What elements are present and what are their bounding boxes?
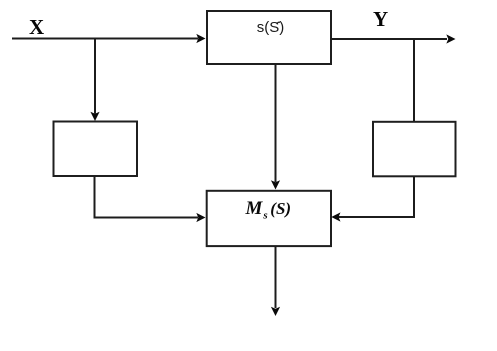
block M_s(S) xyxy=(207,191,331,246)
wire: output Y horizontal line xyxy=(331,38,448,40)
wire: output from M block bottom xyxy=(275,247,277,309)
wire: from right block bottom, down then left to M block xyxy=(338,177,414,218)
arrowhead of bottom output xyxy=(271,307,280,316)
node Y label xyxy=(373,7,388,31)
arrowhead into M_s(S) block top xyxy=(271,180,280,189)
arrowhead into M block right side xyxy=(331,212,340,221)
right block (empty) xyxy=(373,122,456,177)
arrowhead of Y output xyxy=(446,34,455,43)
wire: center vertical from s(S) block down xyxy=(275,64,277,182)
arrowhead into left block xyxy=(90,112,99,121)
wire: input X horizontal line xyxy=(12,38,198,40)
svg-text:Y: Y xyxy=(373,7,388,31)
block s(S) xyxy=(207,11,331,64)
svg-text:X: X xyxy=(29,15,44,39)
wire: left vertical branch from X line xyxy=(94,39,96,114)
wire: from left block bottom, down then right to M block xyxy=(95,177,199,218)
left block (empty) xyxy=(54,122,138,177)
svg-text:s(S): s(S) xyxy=(257,19,285,36)
wire: right vertical branch from Y line xyxy=(413,39,415,122)
arrowhead into M block left side xyxy=(196,213,205,222)
arrowhead into s(S) block xyxy=(196,34,205,43)
node X label xyxy=(29,15,44,39)
